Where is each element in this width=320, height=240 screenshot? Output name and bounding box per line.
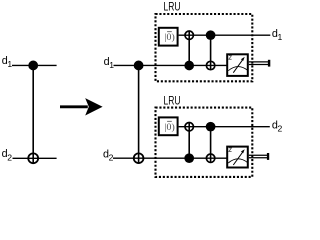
svg-text:LRU: LRU [164, 1, 181, 13]
label d2 (output) [272, 119, 283, 133]
ancilla wire top [179, 34, 271, 36]
LRU box top (dotted) [156, 14, 253, 81]
svg-text:2: 2 [278, 123, 283, 133]
CNOT vertical left [32, 65, 34, 163]
CNOT2 target on d2 [206, 154, 214, 162]
meter needle bottom [233, 149, 244, 165]
meter arc top [228, 67, 247, 71]
label d1 (left circuit) [2, 55, 13, 69]
CNOT2 control on ancilla top [206, 30, 216, 40]
ancilla wire bottom [179, 126, 270, 128]
CNOT vertical right [138, 65, 140, 163]
LRU box bottom (dotted) [156, 108, 253, 177]
wire d2 right [113, 157, 228, 159]
CNOT2 control on ancilla bottom [206, 122, 216, 132]
meter arc bottom [228, 159, 247, 163]
classical double wire bottom [249, 155, 268, 158]
classical wire end cap top [268, 60, 270, 67]
CNOT1 control on d2 [184, 153, 194, 163]
measurement basis label Z top [229, 56, 232, 60]
CNOT target right [134, 153, 144, 163]
measurement basis label Z bottom [229, 148, 232, 152]
state prep box |0> bottom [159, 117, 178, 135]
label d1 (right circuit input) [104, 56, 115, 70]
control dot right CNOT [134, 61, 144, 71]
ket |0> text bottom [165, 121, 175, 133]
CNOT2 vertical bottom box [210, 127, 212, 163]
wire d2 left [13, 157, 57, 159]
svg-text:1: 1 [109, 60, 114, 70]
classical wire end cap bottom [267, 153, 269, 160]
CNOT2 target on d1 [206, 61, 214, 69]
svg-text:|0): |0) [165, 32, 175, 43]
meter needle top [233, 57, 244, 73]
label d2 (right circuit input) [103, 148, 114, 162]
wire d1 right [114, 64, 228, 66]
ket |0> text top [165, 31, 175, 43]
CNOT target left [28, 153, 38, 163]
classical double wire top [249, 62, 269, 65]
label d1 (output) [272, 28, 283, 42]
wire d1 left [12, 64, 57, 66]
CNOT1 target on ancilla bottom [185, 123, 193, 131]
CNOT1 control on d1 [184, 61, 194, 71]
CNOT2 vertical top box [210, 35, 212, 69]
state prep box |0> top [159, 28, 178, 46]
CNOT1 vertical bottom box [188, 123, 190, 159]
svg-text:1: 1 [7, 59, 12, 69]
svg-text:1: 1 [278, 32, 283, 42]
measurement box M2 [227, 147, 248, 168]
CNOT1 target on ancilla top [185, 31, 193, 39]
arrow [60, 98, 103, 115]
label d2 (left circuit) [2, 148, 13, 162]
svg-text:LRU: LRU [164, 95, 181, 107]
control dot left CNOT [28, 61, 38, 71]
measurement box M1 [227, 54, 248, 76]
svg-text:2: 2 [109, 153, 114, 163]
svg-text:|0): |0) [165, 122, 175, 133]
CNOT1 vertical top box [188, 31, 190, 65]
svg-text:2: 2 [7, 152, 12, 162]
